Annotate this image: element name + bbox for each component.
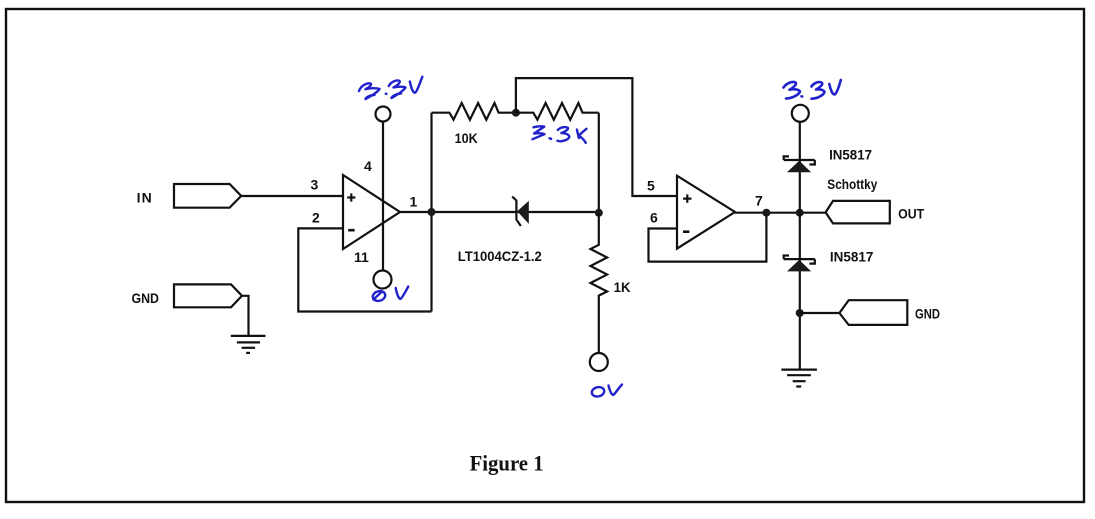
svg-text:7: 7 bbox=[755, 193, 763, 209]
U1 plus sign bbox=[347, 193, 355, 201]
wire IN to U1 pin3 bbox=[241, 195, 343, 197]
op-amp U2 bbox=[677, 176, 735, 249]
resistor R2 3.3K bbox=[516, 103, 599, 120]
wire top rail from node to U2 pin5 bbox=[516, 78, 677, 196]
diode D2 IN5817 bbox=[784, 256, 815, 272]
handwritten 3.3V left bbox=[359, 77, 422, 99]
U2 minus sign bbox=[683, 230, 689, 233]
svg-text:IN: IN bbox=[137, 190, 152, 206]
connector J4 GND bbox=[839, 300, 907, 325]
wire U2 output to OUT bbox=[735, 212, 826, 214]
svg-text:OUT: OUT bbox=[898, 205, 924, 221]
U1 supply wire pin4 to pin11 bbox=[382, 122, 384, 271]
handwritten 3.3V right bbox=[784, 80, 841, 99]
handwritten OV bbox=[591, 385, 622, 398]
svg-text:GND: GND bbox=[132, 290, 160, 306]
svg-text:Schottky: Schottky bbox=[827, 176, 877, 192]
junction node between resistors bbox=[512, 109, 520, 117]
diode D1 IN5817 bbox=[784, 156, 815, 172]
wire node to GND connector bbox=[800, 312, 840, 314]
op-amp U1 bbox=[343, 175, 400, 249]
connector J1 IN bbox=[174, 184, 241, 208]
junction node U2 output feedback bbox=[762, 209, 770, 217]
wire right rail bbox=[799, 122, 801, 370]
svg-text:IN5817: IN5817 bbox=[830, 248, 874, 264]
zener diode LT1004 symbol bbox=[512, 197, 529, 226]
svg-text:4: 4 bbox=[364, 158, 372, 174]
handwritten 0V U1 bbox=[372, 287, 409, 303]
U2 plus sign bbox=[683, 194, 691, 202]
ground symbol left bbox=[231, 336, 266, 353]
svg-text:IN5817: IN5817 bbox=[829, 147, 872, 163]
connector J3 OUT bbox=[826, 201, 890, 224]
junction node output rail bbox=[796, 209, 804, 217]
svg-text:1K: 1K bbox=[614, 279, 631, 295]
svg-text:11: 11 bbox=[354, 249, 369, 265]
svg-text:3: 3 bbox=[311, 177, 319, 193]
svg-text:10K: 10K bbox=[455, 130, 478, 146]
U2 feedback wire pin6 loop bbox=[649, 213, 767, 262]
handwritten 3.3K value bbox=[533, 126, 587, 143]
wire GND to ground bbox=[242, 296, 249, 335]
zener diode LT1004 wire bbox=[516, 211, 599, 213]
terminal circle 3.3V right bbox=[792, 105, 809, 122]
resistor R1 10K bbox=[432, 103, 516, 120]
svg-text:2: 2 bbox=[312, 210, 320, 226]
terminal circle 0V R3 bbox=[590, 353, 608, 371]
junction node U1 output bbox=[428, 208, 436, 216]
U1 feedback wire pin2 loop bbox=[298, 228, 431, 311]
svg-text:5: 5 bbox=[647, 178, 655, 194]
svg-text:LT1004CZ-1.2: LT1004CZ-1.2 bbox=[458, 248, 542, 264]
wire U1 output bbox=[400, 211, 516, 213]
terminal circle 0V U1 bbox=[374, 271, 392, 289]
U1 minus sign bbox=[348, 229, 354, 232]
junction node GND rail bbox=[796, 309, 804, 317]
svg-text:1: 1 bbox=[410, 193, 418, 209]
resistor R3 1K bbox=[591, 213, 608, 353]
junction node zener right bbox=[595, 209, 603, 217]
svg-text:Figure 1: Figure 1 bbox=[470, 450, 544, 475]
svg-text:6: 6 bbox=[650, 210, 658, 226]
wire 3.3K down to zener node bbox=[598, 113, 600, 213]
wire vertical output node to 10K and feedback bbox=[430, 113, 432, 312]
ground symbol right bbox=[781, 370, 817, 387]
svg-text:GND: GND bbox=[915, 306, 940, 322]
connector J2 GND bbox=[174, 284, 242, 307]
terminal circle 3.3V U1 bbox=[376, 107, 391, 122]
